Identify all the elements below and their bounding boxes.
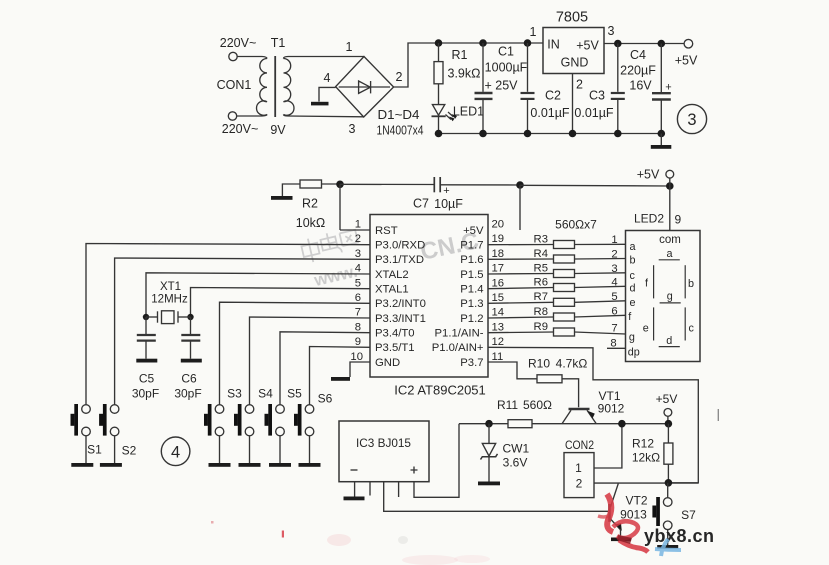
svg-text:IC3 BJ015: IC3 BJ015 [356, 436, 411, 450]
svg-text:13: 13 [492, 321, 505, 333]
svg-text:20: 20 [492, 219, 505, 231]
svg-text:560Ωx7: 560Ωx7 [555, 218, 597, 232]
+5V terminal above LED2 [666, 170, 674, 178]
svg-text:4: 4 [324, 71, 331, 85]
bottom rail of power section [439, 133, 662, 135]
svg-text:P1.3: P1.3 [460, 298, 483, 310]
svg-text:C2: C2 [545, 89, 561, 103]
IC3 pin3 wire to VT2 base [384, 482, 608, 512]
svg-text:2: 2 [576, 477, 583, 491]
svg-text:220V~: 220V~ [220, 36, 257, 50]
resistor R10 [537, 375, 562, 383]
transformer T1 primary winding [257, 59, 267, 116]
svg-text:1N4007x4: 1N4007x4 [377, 124, 424, 138]
svg-text:S2: S2 [122, 444, 137, 458]
regulator U 7805 box [543, 28, 604, 74]
switch S7 [652, 483, 696, 549]
node dot R12 top [665, 420, 673, 428]
svg-text:S4: S4 [258, 387, 273, 401]
node dot VT1 collector [618, 420, 626, 428]
wire CON2 pin1 [594, 424, 622, 468]
switch S3 [204, 387, 242, 467]
MCU right pin labels [432, 225, 484, 369]
svg-text:C7: C7 [413, 197, 429, 211]
capacitor C7 [433, 177, 435, 192]
capacitor C1 [482, 43, 484, 92]
svg-text:XT1: XT1 [160, 281, 181, 293]
connector CON2 box [564, 453, 594, 498]
svg-text:R12: R12 [632, 437, 654, 451]
node dot RST rail [336, 181, 344, 189]
transistor VT1 9012 [562, 409, 596, 424]
svg-text:P3.3/INT1: P3.3/INT1 [375, 313, 426, 325]
svg-text:R4: R4 [534, 248, 548, 260]
circled number 4 [161, 437, 190, 466]
svg-text:P1.4: P1.4 [460, 284, 483, 296]
svg-text:12: 12 [492, 336, 505, 348]
LED2 display box [626, 231, 701, 362]
node dot R12 bottom [665, 479, 673, 487]
svg-text:P3.2/INT0: P3.2/INT0 [375, 298, 426, 310]
node dot bottom 7805 gnd [569, 130, 577, 138]
svg-text:5: 5 [611, 291, 617, 303]
svg-text:C3: C3 [589, 89, 605, 103]
svg-text:7: 7 [611, 323, 617, 335]
svg-text:2: 2 [396, 70, 403, 84]
svg-text:R6: R6 [534, 277, 548, 289]
svg-text:10µF: 10µF [434, 197, 463, 211]
node dot C2 top [524, 39, 532, 47]
ground at bridge pin4 [311, 102, 329, 106]
svg-text:1: 1 [355, 219, 361, 231]
svg-text:CON1: CON1 [217, 78, 252, 92]
svg-text:560Ω: 560Ω [523, 398, 552, 412]
svg-text:P1.1/AIN-: P1.1/AIN- [435, 328, 484, 340]
resistor R11 [508, 420, 532, 428]
svg-text:10kΩ: 10kΩ [296, 216, 326, 230]
svg-text:P1.0/AIN+: P1.0/AIN+ [432, 342, 484, 354]
svg-text:CON2: CON2 [565, 438, 594, 452]
svg-text:+5V: +5V [463, 225, 484, 237]
svg-text:17: 17 [492, 263, 505, 275]
node dot C1 top [479, 39, 487, 47]
node dot pin20 rail [516, 181, 524, 189]
svg-text:8: 8 [355, 321, 361, 333]
svg-text:12kΩ: 12kΩ [632, 451, 660, 465]
svg-text:7: 7 [355, 307, 361, 319]
switch S2 [99, 404, 137, 467]
capacitor C4 [660, 44, 662, 93]
wire pin3 to S2 [115, 258, 370, 405]
svg-text:16: 16 [492, 277, 505, 289]
wire pin10 GND [350, 362, 370, 377]
IC U2 AT89C2051 box [370, 215, 488, 378]
svg-text:1: 1 [611, 234, 617, 246]
node dot bottom C2 [524, 130, 532, 138]
svg-text:P1.7: P1.7 [460, 240, 483, 252]
svg-text:2: 2 [611, 248, 617, 260]
wire pin5 to crystal [191, 288, 371, 318]
svg-text:+ 25V: + 25V [484, 79, 518, 93]
wire down to LED2 pin9 [669, 186, 671, 231]
wire bridge pin4 [319, 87, 336, 101]
svg-text:ybx8.cn: ybx8.cn [644, 526, 715, 546]
svg-text:220V~: 220V~ [222, 122, 259, 136]
svg-text:R8: R8 [534, 306, 548, 318]
svg-text:P1.5: P1.5 [460, 269, 483, 281]
transformer T1 secondary winding [284, 59, 294, 116]
wire 7805 GND pin2 [572, 74, 574, 134]
svg-text:b: b [630, 255, 636, 267]
svg-text:9: 9 [674, 213, 681, 227]
capacitor C2 [527, 43, 529, 92]
svg-text:P1.6: P1.6 [460, 254, 483, 266]
node dot R1 top [435, 39, 443, 47]
ground at C5 [136, 359, 157, 363]
svg-text:+5V: +5V [576, 39, 599, 53]
svg-text:S5: S5 [287, 387, 302, 401]
switch S1 [71, 404, 103, 467]
svg-text:d: d [630, 283, 636, 295]
node dot C3 top [614, 40, 622, 48]
crystal XT1 [143, 314, 149, 320]
svg-text:3: 3 [611, 263, 617, 275]
wire secondary bottom to bridge [284, 115, 364, 117]
svg-text:com: com [659, 234, 681, 246]
svg-text:C1: C1 [498, 45, 514, 59]
resistor R4 [488, 248, 626, 263]
svg-text:S1: S1 [87, 443, 102, 457]
svg-text:16V: 16V [629, 79, 652, 93]
svg-text:4: 4 [355, 263, 361, 275]
wire pin2 to S1 [86, 244, 370, 405]
switch S6 [294, 392, 333, 467]
resistor R5 [488, 263, 626, 278]
wire down to MCU pin1 [339, 184, 341, 230]
svg-text:1: 1 [530, 25, 537, 39]
svg-text:S7: S7 [681, 508, 696, 522]
wire pin7 to S4 [250, 317, 371, 405]
svg-text:4.7kΩ: 4.7kΩ [556, 357, 588, 371]
node dot C4 top [658, 40, 666, 48]
svg-text:1000µF: 1000µF [485, 61, 528, 75]
ground at R2 [282, 184, 300, 196]
svg-text:+: + [443, 185, 449, 197]
MCU right pin numbers [492, 219, 505, 363]
svg-text:C4: C4 [630, 48, 646, 62]
node dot bottom C4 [658, 130, 666, 138]
LED2 segment pin letters [628, 241, 640, 359]
svg-text:C6: C6 [181, 372, 197, 386]
svg-text:R9: R9 [534, 321, 548, 333]
svg-text:30pF: 30pF [174, 387, 201, 401]
IC3 minus sign [351, 469, 358, 471]
ground power rail [660, 134, 662, 146]
svg-text:CW1: CW1 [502, 442, 529, 456]
blue scribble under S7 [655, 539, 681, 556]
svg-text:e: e [643, 323, 649, 335]
svg-text:3: 3 [349, 122, 356, 136]
svg-text:R1: R1 [452, 48, 468, 62]
svg-text:LED1: LED1 [453, 105, 484, 119]
svg-text:2: 2 [576, 78, 583, 92]
svg-text:+5V: +5V [675, 54, 698, 68]
wire pin4 to crystal [146, 273, 370, 317]
wire rail to C7 [340, 183, 434, 185]
svg-text:0.01µF: 0.01µF [530, 106, 570, 120]
svg-text:7805: 7805 [556, 10, 588, 26]
svg-text:+5V: +5V [637, 168, 660, 182]
LED2 dp stub pin8 [607, 338, 626, 350]
svg-text:a: a [630, 241, 636, 253]
svg-text:S3: S3 [227, 387, 242, 401]
wire MCU pin11 P3.7 to R10 [488, 362, 537, 379]
gray site watermark center [300, 227, 360, 264]
resistor R12 [667, 424, 669, 443]
svg-text:R10: R10 [528, 357, 550, 371]
svg-text:2: 2 [355, 233, 361, 245]
wire pin9 to S6 [310, 347, 371, 405]
svg-text:3: 3 [355, 248, 361, 260]
resistor R2 [300, 180, 322, 188]
svg-text:c: c [688, 323, 694, 335]
transformer core [274, 56, 276, 117]
red scribble over VT2 [598, 494, 648, 552]
IC3 BJ015 box [339, 421, 429, 482]
LED1 [432, 105, 444, 116]
svg-text:5: 5 [355, 277, 361, 289]
scan artifact vertical mark [717, 409, 719, 421]
resistor R7 [488, 291, 626, 307]
wire down to MCU pin20 [519, 185, 521, 230]
capacitor C6 [190, 317, 192, 334]
node dot LED2 +5V [666, 182, 674, 190]
node dot bottom R1 [435, 130, 443, 138]
svg-text:4: 4 [171, 443, 180, 461]
svg-text:C5: C5 [139, 372, 155, 386]
resistor R3 [488, 233, 626, 248]
svg-text:XTAL1: XTAL1 [375, 284, 409, 296]
svg-text:IC2 AT89C2051: IC2 AT89C2051 [394, 383, 486, 398]
resistor R6 [488, 276, 626, 291]
bridge internal diode [339, 86, 390, 88]
capacitor C5 [145, 317, 147, 334]
svg-text:3.6V: 3.6V [503, 456, 528, 470]
svg-text:0.01µF: 0.01µF [574, 106, 614, 120]
svg-text:9012: 9012 [598, 402, 625, 416]
svg-text:T1: T1 [271, 36, 286, 50]
svg-text:R11: R11 [497, 398, 518, 412]
wire CON2 pin2 to R12 bottom [594, 482, 698, 484]
LED1 arrows [446, 112, 454, 120]
svg-text:30pF: 30pF [132, 387, 159, 401]
IC3 pin2 stub [369, 482, 371, 496]
MCU pin1 stub [340, 229, 370, 231]
svg-text:VT2: VT2 [625, 494, 647, 508]
IC3 pin4 stub [398, 482, 400, 497]
svg-text:e: e [630, 297, 636, 309]
circled number 3 [677, 104, 706, 133]
+5V terminal bottom [664, 409, 672, 417]
svg-text:18: 18 [492, 248, 505, 260]
svg-text:9: 9 [355, 336, 361, 348]
transistor VT2 9013 [610, 484, 632, 542]
bottom +5V rail [459, 423, 668, 425]
wire pin6 to S3 [220, 302, 371, 405]
bridge rectifier D1~D4 diamond [336, 57, 394, 118]
svg-text:3: 3 [687, 111, 696, 129]
resistor R9 [488, 321, 626, 336]
red small marks [282, 531, 284, 538]
svg-text:XTAL2: XTAL2 [375, 269, 409, 281]
wire 7805 out rail [604, 43, 685, 45]
svg-text:P3.7: P3.7 [460, 357, 483, 369]
svg-text:10: 10 [350, 351, 363, 363]
zener diode CW1 [481, 424, 498, 482]
svg-text:14: 14 [492, 307, 505, 319]
wire pin8 to S5 [280, 332, 370, 405]
wire primary bottom [237, 115, 267, 117]
+5V output terminal [684, 39, 693, 48]
wire primary top [237, 57, 267, 59]
svg-text:6: 6 [611, 305, 617, 317]
wire secondary top to bridge [284, 57, 365, 59]
svg-text:g: g [629, 332, 635, 344]
svg-text:220µF: 220µF [620, 64, 656, 78]
svg-text:1: 1 [346, 40, 353, 54]
node dot CW1 [485, 420, 493, 428]
MCU left pin labels [375, 225, 426, 369]
faint pink smudges bottom [327, 534, 351, 546]
svg-text:GND: GND [375, 357, 400, 369]
svg-text:GND: GND [561, 56, 589, 70]
svg-text:P3.4/T0: P3.4/T0 [375, 328, 415, 340]
node dot bottom C3 [614, 130, 622, 138]
svg-text:P3.1/TXD: P3.1/TXD [375, 254, 424, 266]
7-segment glyph [643, 248, 695, 347]
svg-text:11: 11 [492, 351, 504, 363]
svg-text:S6: S6 [318, 392, 333, 406]
IC3 plus sign [411, 467, 418, 474]
svg-text:3: 3 [608, 24, 615, 38]
resistor R1 [438, 43, 440, 62]
ground at MCU pin10 [331, 377, 350, 381]
IC3 pin5 wire to +5V rail [414, 424, 459, 498]
svg-text:g: g [667, 291, 673, 303]
svg-text:LED2: LED2 [634, 212, 664, 226]
switch S4 [234, 387, 273, 467]
svg-text:c: c [630, 270, 636, 282]
capacitor C3 [617, 44, 619, 92]
MCU left pin numbers [350, 219, 363, 363]
svg-text:4: 4 [611, 276, 617, 288]
svg-text:12MHz: 12MHz [151, 294, 188, 306]
svg-text:9V: 9V [270, 123, 286, 137]
svg-text:+5V: +5V [656, 392, 678, 406]
wire MCU pin12 P1.0 to right column [488, 347, 698, 483]
svg-text:3.9kΩ: 3.9kΩ [448, 67, 481, 81]
wire C7 to +5V node [440, 184, 520, 186]
IC3 pin1 to ground [354, 482, 356, 497]
svg-text:IN: IN [547, 38, 560, 52]
svg-text:b: b [688, 278, 694, 290]
svg-text:R7: R7 [534, 291, 548, 303]
svg-text:R5: R5 [534, 263, 548, 275]
svg-text:dp: dp [628, 347, 640, 359]
connector CON1 terminal top [229, 52, 237, 60]
svg-text:1: 1 [575, 461, 582, 475]
svg-text:6: 6 [355, 292, 361, 304]
svg-text:RST: RST [375, 225, 398, 237]
svg-text:8: 8 [610, 338, 616, 350]
svg-text:19: 19 [492, 233, 505, 245]
wire bridge pin2 to top rail [394, 43, 543, 87]
node dot bottom C1 [479, 130, 487, 138]
resistor R8 [488, 305, 626, 321]
svg-text:P1.2: P1.2 [460, 313, 483, 325]
ground at CW1 [478, 482, 500, 486]
svg-text:a: a [666, 248, 672, 260]
switch S5 [265, 387, 303, 467]
svg-text:D1~D4: D1~D4 [378, 108, 420, 122]
svg-text:P3.0/RXD: P3.0/RXD [375, 240, 425, 252]
connector CON1 terminal bottom [228, 112, 236, 120]
svg-text:+: + [665, 82, 671, 94]
wire to LED2 +5V node [520, 184, 670, 187]
svg-text:R3: R3 [534, 233, 548, 245]
ground at C6 [181, 359, 202, 363]
svg-text:15: 15 [492, 292, 505, 304]
svg-text:R2: R2 [302, 197, 318, 211]
svg-text:d: d [666, 335, 672, 347]
svg-text:P3.5/T1: P3.5/T1 [375, 342, 415, 354]
